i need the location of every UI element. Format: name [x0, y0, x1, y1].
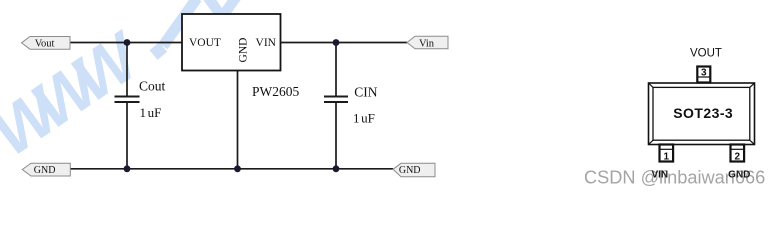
svg-text:PW2605: PW2605: [252, 84, 300, 99]
svg-text:SOT23-3: SOT23-3: [673, 105, 733, 121]
svg-text:2: 2: [735, 152, 741, 163]
svg-text:Vin: Vin: [419, 38, 435, 49]
svg-text:CSDN @linbaiwan666: CSDN @linbaiwan666: [584, 168, 765, 188]
svg-text:1uF: 1uF: [140, 105, 162, 120]
svg-text:GND: GND: [34, 165, 56, 176]
svg-text:Vout: Vout: [35, 38, 55, 49]
svg-text:VOUT: VOUT: [690, 48, 722, 60]
svg-text:WWW: WWW: [0, 17, 155, 170]
svg-text:GND: GND: [399, 165, 421, 176]
svg-text:1uF: 1uF: [353, 110, 375, 125]
svg-text:VOUT: VOUT: [189, 37, 221, 49]
svg-text:VIN: VIN: [256, 37, 277, 49]
svg-text:1: 1: [664, 152, 670, 163]
svg-text:3: 3: [701, 67, 707, 78]
svg-text:GND: GND: [237, 38, 249, 63]
svg-text:CIN: CIN: [354, 85, 378, 100]
svg-text:Cout: Cout: [139, 79, 166, 94]
